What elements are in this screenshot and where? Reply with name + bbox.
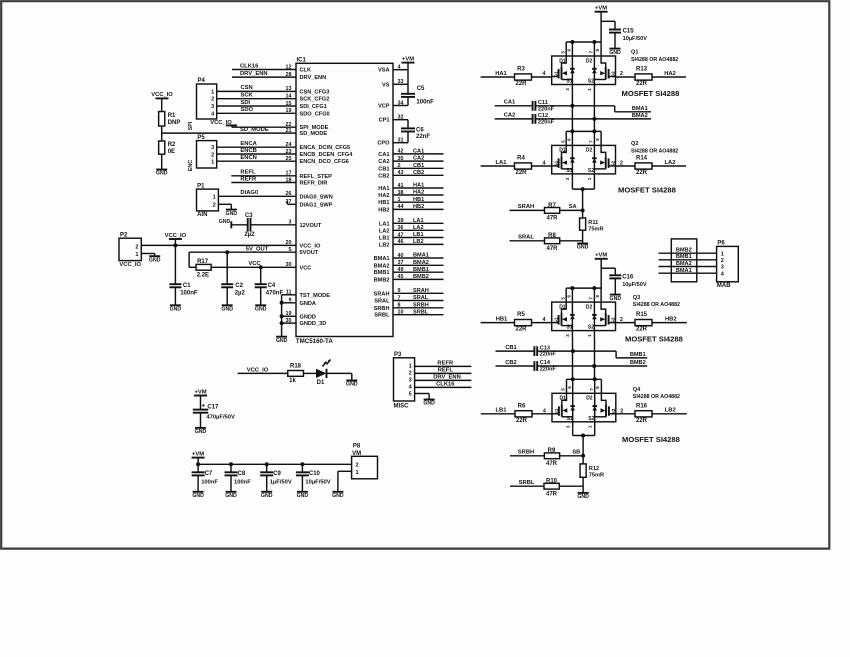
label Q4 designator: [633, 387, 680, 400]
capacitor C16 10uF/50V: [609, 274, 647, 294]
svg-text:1: 1: [135, 252, 138, 258]
ground below C8: [225, 492, 237, 499]
ground below C7: [192, 492, 204, 499]
svg-text:R2: R2: [168, 142, 176, 148]
IC1 right pin numbers and labels upper: [377, 65, 403, 147]
ground below C9: [261, 492, 273, 499]
svg-text:LB1: LB1: [413, 232, 424, 238]
svg-text:CA2: CA2: [413, 156, 424, 162]
ground below C1: [170, 305, 182, 312]
svg-text:ENCA: ENCA: [240, 141, 257, 147]
svg-text:220nF: 220nF: [540, 367, 557, 373]
svg-text:22R: 22R: [516, 418, 528, 424]
svg-text:+VM: +VM: [595, 6, 607, 12]
svg-text:CP1: CP1: [379, 118, 390, 124]
ground below R12: [577, 493, 589, 500]
svg-text:BMA1: BMA1: [413, 253, 429, 259]
svg-text:+VM: +VM: [402, 56, 414, 62]
svg-text:D1: D1: [317, 380, 325, 386]
junction VCC_IO at C1: [173, 243, 177, 247]
ground at P3 pin 5: [423, 400, 435, 407]
svg-text:GND: GND: [261, 493, 273, 499]
svg-text:CB2: CB2: [505, 360, 517, 366]
ground below C15: [609, 49, 621, 56]
wire 5V_OUT down to R17: [189, 252, 196, 267]
svg-text:MISC: MISC: [394, 403, 410, 409]
svg-text:DIAG1_SWP: DIAG1_SWP: [300, 202, 333, 208]
capacitor C14 220nF: [534, 360, 556, 372]
svg-text:HA1: HA1: [495, 71, 507, 77]
svg-text:BMB2: BMB2: [413, 274, 429, 280]
svg-text:1: 1: [211, 160, 214, 166]
svg-text:MOSFET SI4288: MOSFET SI4288: [622, 435, 680, 444]
resistor R3 22R: [515, 67, 532, 87]
resistor R10 47R: [544, 479, 559, 498]
svg-text:VCP: VCP: [378, 104, 390, 110]
svg-text:41: 41: [398, 183, 404, 189]
svg-text:BMB1: BMB1: [374, 270, 390, 276]
resistor R16 22R: [635, 403, 652, 423]
resistor R1 DNP: [159, 112, 181, 127]
ground at P1 pin 2: [226, 210, 238, 217]
svg-text:C5: C5: [417, 86, 425, 92]
wire CP1 to C6: [393, 120, 408, 129]
svg-text:HA2: HA2: [664, 71, 676, 77]
resistor R9 47R: [544, 448, 559, 467]
svg-text:470nF: 470nF: [266, 290, 284, 296]
svg-text:BMA2: BMA2: [413, 260, 429, 266]
label MOSFET SI4288 for Q3: [625, 334, 683, 343]
svg-text:GND: GND: [255, 307, 267, 313]
svg-text:CA1: CA1: [413, 149, 424, 155]
svg-text:BMA1: BMA1: [632, 106, 648, 112]
svg-text:47R: 47R: [546, 491, 558, 497]
svg-text:3: 3: [721, 265, 724, 271]
wire net DIAG0 P1-1 to IC pin 26: [218, 190, 296, 196]
ground below C16: [610, 295, 622, 302]
wire Q1 G2 to R13: [616, 76, 636, 78]
svg-text:CLK: CLK: [300, 68, 312, 74]
wire net REFL to IC pin 17: [231, 170, 296, 176]
svg-text:HA2: HA2: [378, 193, 389, 199]
svg-text:CA2: CA2: [378, 159, 389, 165]
svg-text:22nF: 22nF: [416, 134, 430, 140]
svg-text:44: 44: [398, 204, 404, 210]
svg-text:CB2: CB2: [413, 170, 424, 176]
wire net SDO P4-4 to IC pin 19: [217, 107, 296, 113]
svg-text:100nF: 100nF: [201, 479, 218, 485]
svg-text:2: 2: [409, 371, 412, 377]
svg-text:HB2: HB2: [413, 204, 424, 210]
svg-text:C10: C10: [309, 471, 321, 477]
svg-text:VCC_IO: VCC_IO: [247, 367, 269, 373]
capacitor C3 2u2: [231, 213, 296, 238]
svg-text:VCC_IO: VCC_IO: [300, 243, 321, 249]
svg-text:R17: R17: [197, 259, 209, 265]
resistor R4 22R: [515, 156, 532, 176]
svg-text:SRBH: SRBH: [374, 306, 390, 312]
svg-text:CB2: CB2: [378, 173, 389, 179]
net label box BMB2 BMB1 BMA2 BMA1: [671, 239, 697, 282]
ground after D1: [346, 381, 358, 388]
svg-text:SDI: SDI: [241, 100, 251, 106]
connector P5 ENC: [188, 135, 217, 171]
wire net CA2 to C12: [495, 113, 533, 119]
svg-text:100nF: 100nF: [416, 100, 434, 106]
wire P1-2 to ground: [218, 204, 231, 209]
wire Q2 sources merge to node SA: [569, 181, 595, 218]
svg-text:BMB2: BMB2: [374, 277, 390, 283]
label MOSFET SI4288 for Q1: [622, 89, 680, 98]
svg-text:C9: C9: [273, 471, 281, 477]
svg-text:1: 1: [211, 89, 214, 95]
svg-text:10µF/50V: 10µF/50V: [623, 36, 648, 42]
svg-text:3: 3: [211, 145, 214, 151]
wire Q4 G2 to R16: [616, 413, 636, 415]
svg-text:5VOUT: 5VOUT: [300, 250, 319, 256]
capacitor C2 2u2: [221, 252, 245, 305]
svg-text:Q1: Q1: [631, 50, 638, 56]
svg-text:46: 46: [398, 239, 404, 245]
stub DIAG1_SWP pin 27: [287, 201, 296, 205]
resistor R12 75mR sense: [580, 464, 604, 479]
svg-text:C3: C3: [245, 213, 253, 219]
svg-text:SDO: SDO: [241, 107, 254, 113]
ground at P2 pin 1: [149, 256, 161, 263]
svg-text:LA1: LA1: [413, 218, 424, 224]
svg-text:10: 10: [398, 310, 404, 316]
wire net REFL from P3-2: [415, 367, 472, 373]
svg-text:2µ2: 2µ2: [244, 232, 255, 238]
power +VM at VSA: [402, 56, 415, 62]
svg-text:GND: GND: [577, 494, 589, 500]
svg-text:R18: R18: [290, 364, 302, 370]
svg-text:LB1: LB1: [379, 236, 390, 242]
wire Q3 G2 to R15: [616, 322, 636, 324]
svg-text:ENCA_DCIN_CFG5: ENCA_DCIN_CFG5: [300, 145, 351, 151]
connector P3 MISC: [394, 352, 415, 409]
svg-text:220nF: 220nF: [540, 352, 557, 358]
wire net ENCB P5-2 to IC pin 23: [217, 148, 296, 154]
svg-text:+VM: +VM: [192, 451, 204, 457]
svg-text:AIN: AIN: [197, 212, 207, 218]
svg-text:MOSFET SI4288: MOSFET SI4288: [625, 334, 683, 343]
svg-text:CSN: CSN: [241, 85, 253, 91]
svg-text:VS: VS: [382, 82, 390, 88]
wire R8 to R11 bottom: [560, 230, 583, 243]
svg-text:47R: 47R: [546, 461, 558, 467]
svg-text:DNP: DNP: [168, 120, 181, 126]
svg-text:40: 40: [398, 253, 404, 259]
power VCC_IO above C1: [165, 233, 187, 246]
svg-text:22R: 22R: [636, 418, 648, 424]
capacitor C5 100nF: [401, 86, 434, 106]
svg-text:0E: 0E: [168, 149, 175, 155]
wire Q2 G2 to R14: [616, 165, 636, 167]
svg-text:TMC5160-TA: TMC5160-TA: [296, 338, 334, 345]
resistor R18 1k: [288, 364, 304, 384]
svg-text:5V_OUT: 5V_OUT: [246, 246, 269, 252]
svg-text:C8: C8: [238, 471, 246, 477]
wire C12 to Q1 S2 and net BMA2: [535, 113, 651, 121]
svg-text:SA: SA: [569, 204, 577, 210]
svg-text:DIAG0_SWN: DIAG0_SWN: [300, 194, 333, 200]
svg-text:GND: GND: [577, 245, 589, 251]
wire net CB2 to C14: [496, 360, 535, 366]
svg-text:CLK16: CLK16: [240, 63, 259, 69]
wire R4 to Q2 gate G1: [532, 165, 552, 167]
svg-text:BMA2: BMA2: [632, 113, 648, 119]
wire net LA1 to R4: [481, 160, 514, 166]
label Q1 designator: [631, 50, 678, 63]
ground below R11: [577, 244, 589, 251]
connector P1 AIN: [197, 183, 219, 218]
svg-text:100nF: 100nF: [234, 479, 251, 485]
svg-text:22R: 22R: [515, 327, 527, 333]
svg-text:GND: GND: [170, 307, 182, 313]
wire Q1 sources down to Q2: [572, 92, 594, 132]
wire P3-5 to ground: [415, 394, 430, 400]
svg-text:GND: GND: [192, 493, 204, 499]
svg-text:GND: GND: [423, 401, 435, 407]
svg-text:ENCN: ENCN: [240, 155, 256, 161]
ground below C17: [195, 428, 207, 435]
transistor Q2 dual MOSFET SI4288: [543, 129, 623, 181]
wire D1 to ground: [327, 373, 352, 380]
svg-text:BMA2: BMA2: [374, 263, 390, 269]
svg-text:SDO_CFG0: SDO_CFG0: [300, 111, 330, 117]
svg-text:GND: GND: [221, 307, 233, 313]
svg-text:GND: GND: [297, 493, 309, 499]
wire net SRBL to R10: [510, 480, 544, 486]
svg-text:Q2: Q2: [631, 141, 638, 147]
svg-text:R12: R12: [589, 466, 599, 472]
svg-text:SCK_CFG2: SCK_CFG2: [300, 97, 330, 103]
capacitor C15 10uF/50V: [609, 29, 647, 49]
power +VM above cap bank: [192, 451, 205, 464]
capacitor C12 220nF: [533, 113, 555, 125]
svg-text:1µF/50V: 1µF/50V: [270, 479, 292, 485]
capacitor C6 22nF: [401, 127, 430, 140]
svg-text:SI4288 OR AO4882: SI4288 OR AO4882: [631, 148, 678, 154]
wire net CLK16 to IC pin 12: [232, 63, 296, 69]
svg-text:1k: 1k: [289, 378, 296, 384]
svg-text:DRV_ENN: DRV_ENN: [433, 374, 461, 380]
svg-text:22R: 22R: [515, 81, 527, 87]
wire net VCC_IO P2-2 to IC pin 20: [141, 244, 296, 246]
svg-text:P5: P5: [197, 135, 205, 141]
svg-text:C16: C16: [622, 274, 634, 280]
svg-text:R4: R4: [517, 156, 525, 162]
svg-text:2: 2: [356, 462, 359, 468]
svg-text:2µ2: 2µ2: [235, 290, 246, 296]
wire VSA VS to +VM and C5: [393, 63, 408, 94]
svg-text:1: 1: [398, 197, 401, 203]
capacitor C11 220nF: [533, 100, 555, 112]
wire net REFR to IC pin 18: [231, 176, 296, 182]
wire net SDI P4-3 to IC pin 15: [217, 100, 296, 106]
svg-text:C2: C2: [235, 283, 243, 289]
svg-text:BMB1: BMB1: [630, 352, 646, 358]
svg-text:VCC_IO: VCC_IO: [165, 233, 187, 239]
svg-text:VCC_IO: VCC_IO: [151, 92, 173, 98]
svg-text:BMA1: BMA1: [374, 256, 390, 262]
resistor R11 75mR sense: [580, 218, 604, 233]
transistor Q1 dual MOSFET SI4288: [543, 40, 623, 92]
svg-text:GNDA: GNDA: [300, 301, 316, 307]
svg-text:43: 43: [398, 170, 404, 176]
svg-text:DRV_ENN: DRV_ENN: [300, 75, 327, 81]
wire net SCK P4-2 to IC pin 14: [217, 93, 296, 99]
wire net 5V_OUT to IC pin 5: [189, 246, 296, 252]
wire +VM to C15: [601, 21, 615, 29]
svg-text:LB2: LB2: [665, 408, 676, 414]
IC U-block IC1 TMC5160-TA: [296, 57, 393, 345]
wire SPI_MODE pin 22: [232, 126, 296, 128]
svg-text:CB1: CB1: [378, 166, 389, 172]
svg-text:1: 1: [356, 470, 359, 476]
wire P2-1 to ground: [141, 254, 154, 257]
resistor R7 47R: [545, 203, 560, 222]
svg-text:CSN_CFG3: CSN_CFG3: [300, 89, 330, 95]
svg-text:35: 35: [398, 156, 404, 162]
resistor R2 0E: [159, 141, 176, 155]
wire VCP to C5: [393, 97, 408, 106]
svg-text:12VOUT: 12VOUT: [300, 223, 322, 229]
connector P4 SPI: [188, 78, 217, 130]
svg-text:C7: C7: [205, 471, 213, 477]
svg-text:GND: GND: [195, 429, 207, 435]
capacitor C17 470uF/50V polarized: [193, 402, 235, 428]
svg-text:R16: R16: [636, 403, 648, 409]
connector P8 VM: [352, 444, 378, 479]
svg-text:SRAH: SRAH: [374, 291, 390, 297]
svg-text:R11: R11: [588, 220, 598, 226]
svg-text:100nF: 100nF: [180, 290, 198, 296]
svg-text:GND: GND: [226, 211, 238, 217]
resistor R8 47R: [545, 233, 560, 252]
wire TST_MODE GNDA GNDD pins to ground: [280, 295, 296, 337]
svg-text:REFR: REFR: [240, 176, 257, 182]
svg-text:GND: GND: [332, 493, 344, 499]
wire Q4 sources merge to node SB: [572, 429, 594, 464]
svg-text:SRBL: SRBL: [374, 313, 390, 319]
svg-text:BMB1: BMB1: [413, 267, 429, 273]
junction 5V_OUT at C2: [225, 250, 229, 254]
svg-text:TST_MODE: TST_MODE: [300, 293, 331, 299]
wire net HB2 from R15: [652, 316, 687, 322]
wire net REFR from P3-1: [415, 360, 472, 366]
svg-text:GND: GND: [609, 50, 621, 56]
ground below C2: [221, 305, 233, 312]
svg-text:P6: P6: [717, 241, 725, 247]
svg-text:GND: GND: [610, 296, 622, 302]
wire R6 to Q4 gate G1: [532, 413, 552, 415]
svg-text:9: 9: [398, 288, 401, 294]
wire net LA2 from R14: [652, 160, 686, 166]
LED D1: [316, 360, 331, 387]
svg-text:C4: C4: [268, 283, 276, 289]
wire net LB2 from R16: [652, 408, 687, 414]
wire C11 to Q1 S1 and net BMA1: [535, 104, 651, 112]
svg-text:SI4288 OR AO4882: SI4288 OR AO4882: [633, 394, 680, 400]
ground left of C3: [219, 219, 232, 229]
resistor R17 2.2E: [196, 259, 211, 278]
svg-text:HB2: HB2: [378, 207, 389, 213]
IC1 left pin numbers and labels: [286, 64, 354, 327]
svg-text:8: 8: [398, 303, 401, 309]
svg-text:75mR: 75mR: [589, 473, 604, 479]
svg-text:1: 1: [721, 251, 724, 257]
wire net CB1 to C13: [496, 345, 535, 351]
svg-text:C17: C17: [207, 404, 219, 410]
svg-text:BMB2: BMB2: [630, 360, 646, 366]
svg-text:37: 37: [398, 260, 404, 266]
svg-text:47R: 47R: [546, 216, 558, 222]
svg-text:22R: 22R: [515, 170, 527, 176]
svg-text:Q4: Q4: [633, 387, 641, 393]
resistor R6 22R: [515, 403, 532, 423]
svg-text:220nF: 220nF: [538, 120, 555, 126]
svg-text:P8: P8: [353, 444, 361, 450]
svg-text:VCC: VCC: [300, 265, 312, 271]
power VCC_IO top-left: [151, 92, 173, 111]
svg-text:LB2: LB2: [379, 242, 390, 248]
svg-text:MAB: MAB: [717, 283, 731, 289]
wire R10 to R12 bottom: [560, 477, 583, 493]
wire net HB1 to R5: [481, 316, 514, 322]
svg-text:C6: C6: [416, 127, 424, 133]
wire +VM rail to P8: [196, 462, 352, 466]
transistor Q3 dual MOSFET SI4288: [543, 286, 623, 338]
svg-text:75mR: 75mR: [588, 227, 603, 233]
svg-text:HB1: HB1: [378, 200, 389, 206]
svg-text:R3: R3: [517, 67, 525, 73]
wire net VCC_IO to R18: [238, 367, 288, 373]
svg-text:22R: 22R: [636, 327, 648, 333]
svg-text:10µF/50V: 10µF/50V: [622, 282, 647, 288]
svg-text:P2: P2: [120, 232, 128, 238]
svg-text:3: 3: [211, 104, 214, 110]
capacitor C13 220nF: [534, 345, 556, 357]
wire net SRAL to R8: [510, 235, 545, 241]
capacitor C8 100nF: [225, 464, 252, 492]
wire R7 to node SA: [560, 209, 583, 211]
svg-text:7: 7: [398, 295, 401, 301]
svg-text:Q3: Q3: [633, 295, 640, 301]
svg-text:DRV_ENN: DRV_ENN: [240, 71, 268, 77]
power +VM above Q1: [595, 6, 608, 43]
svg-text:MOSFET SI4288: MOSFET SI4288: [618, 186, 676, 195]
capacitor C10 10uF/50V: [296, 464, 331, 492]
svg-text:3: 3: [409, 378, 412, 384]
svg-text:CPO: CPO: [377, 141, 390, 147]
svg-text:SRBL: SRBL: [519, 480, 535, 486]
svg-text:SRBH: SRBH: [518, 450, 534, 456]
svg-text:MOSFET SI4288: MOSFET SI4288: [622, 89, 680, 98]
label Q2 designator: [631, 141, 678, 154]
svg-text:LA2: LA2: [665, 160, 676, 166]
svg-text:REFL_STEP: REFL_STEP: [300, 174, 333, 180]
svg-text:2.2E: 2.2E: [197, 272, 209, 278]
svg-text:5: 5: [409, 392, 412, 398]
wire Q3 sources down to Q4: [573, 338, 595, 380]
svg-text:1: 1: [213, 194, 216, 200]
transistor Q4 dual MOSFET SI4288: [543, 377, 623, 429]
svg-text:LB1: LB1: [496, 408, 508, 414]
ground below IC digital pins: [276, 337, 288, 344]
wire net SRAH to R7: [510, 204, 545, 210]
